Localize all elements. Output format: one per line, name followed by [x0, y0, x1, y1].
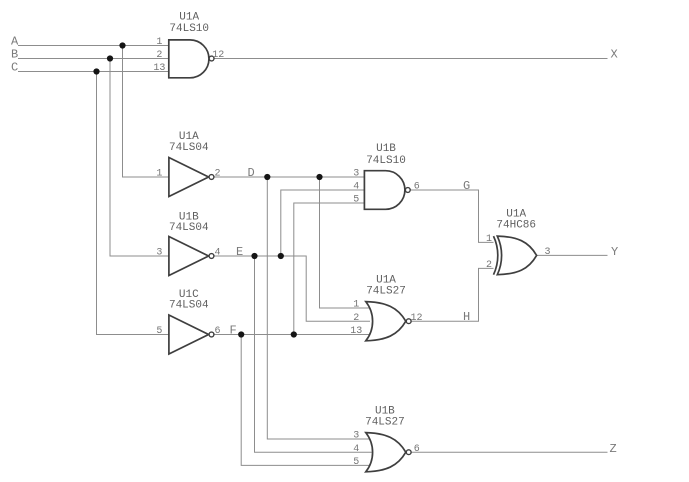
- inverter U1C 74LS04 body: [169, 315, 209, 354]
- junction on F at NAND U1B branch: [291, 331, 297, 337]
- inverter U1C 74LS04 bubble: [209, 332, 214, 337]
- wire input A horizontal: [18, 45, 169, 47]
- svg-text:4: 4: [215, 248, 221, 259]
- svg-text:12: 12: [212, 50, 224, 61]
- NOR U1B 74LS27 output bubble: [406, 450, 411, 455]
- svg-text:5: 5: [156, 326, 162, 337]
- wire F branch up to NAND U1B pin 5: [294, 203, 365, 335]
- svg-text:74LS04: 74LS04: [169, 222, 209, 234]
- wire C drop to inverter U1C input: [97, 72, 169, 335]
- wire node E to NOR U1A pin 2: [214, 256, 370, 321]
- NAND gate U1B 74LS10 body: [364, 171, 405, 210]
- svg-text:12: 12: [411, 313, 423, 324]
- svg-text:Z: Z: [610, 442, 617, 456]
- svg-text:5: 5: [353, 457, 359, 468]
- inverter U1B 74LS04 bubble: [209, 254, 214, 259]
- wire D branch down to NOR U1B pin 3: [267, 177, 370, 439]
- svg-text:74LS27: 74LS27: [365, 416, 405, 428]
- XOR U1A 74HC86 input double arc: [494, 236, 498, 275]
- XOR gate U1A 74HC86 body: [497, 236, 536, 275]
- svg-text:2: 2: [486, 260, 492, 271]
- svg-text:1: 1: [353, 300, 359, 311]
- svg-text:1: 1: [486, 234, 492, 245]
- svg-text:4: 4: [353, 444, 359, 455]
- svg-text:G: G: [463, 179, 470, 193]
- NAND U1A 74LS10 output bubble: [209, 56, 214, 61]
- wire A drop to inverter U1A input: [123, 46, 169, 178]
- wire node F to NOR U1A pin 13: [214, 334, 370, 336]
- NOR U1A 74LS27 output bubble: [406, 319, 411, 324]
- wire node G to XOR pin 1: [410, 190, 496, 242]
- wire Y output: [536, 254, 607, 256]
- inverter U1A 74LS04 body: [169, 158, 209, 197]
- svg-text:2: 2: [156, 50, 162, 61]
- svg-text:2: 2: [353, 313, 359, 324]
- svg-text:B: B: [11, 47, 18, 61]
- svg-text:X: X: [611, 47, 618, 61]
- svg-text:13: 13: [350, 326, 362, 337]
- svg-text:Y: Y: [611, 245, 618, 259]
- svg-text:74LS04: 74LS04: [169, 300, 209, 312]
- svg-text:6: 6: [215, 326, 221, 337]
- wire Z output: [411, 451, 608, 453]
- svg-text:6: 6: [414, 182, 420, 193]
- junction on E at NOR U1B branch: [251, 253, 257, 259]
- svg-text:1: 1: [156, 169, 162, 180]
- junction on D at NOR U1B branch: [264, 174, 270, 180]
- svg-text:74LS10: 74LS10: [366, 155, 406, 167]
- junction on F at NOR U1B branch: [238, 331, 244, 337]
- svg-text:3: 3: [353, 169, 359, 180]
- svg-text:3: 3: [353, 431, 359, 442]
- junction on B: [107, 55, 113, 61]
- svg-text:E: E: [236, 245, 243, 259]
- wire node H to XOR pin 2: [411, 268, 496, 321]
- NAND U1B 74LS10 output bubble: [405, 188, 410, 193]
- wire input B horizontal: [18, 58, 169, 60]
- wire input C horizontal: [18, 71, 169, 73]
- svg-text:U1A: U1A: [179, 12, 199, 24]
- svg-text:2: 2: [215, 169, 221, 180]
- junction on C: [93, 68, 99, 74]
- NOR gate U1B 74LS27 body: [366, 433, 406, 472]
- svg-text:6: 6: [414, 444, 420, 455]
- svg-text:U1B: U1B: [376, 143, 396, 155]
- svg-text:H: H: [463, 310, 470, 324]
- svg-text:A: A: [11, 34, 19, 48]
- wire B drop to inverter U1B input: [110, 59, 169, 257]
- svg-text:C: C: [11, 60, 18, 74]
- junction on D at NOR U1A branch: [316, 174, 322, 180]
- svg-text:74LS27: 74LS27: [366, 286, 406, 298]
- wire E branch up to NAND U1B pin 4: [281, 190, 365, 256]
- svg-text:4: 4: [353, 182, 359, 193]
- junction on A: [119, 42, 125, 48]
- NOR gate U1A 74LS27 body: [366, 302, 406, 341]
- svg-text:5: 5: [353, 195, 359, 206]
- inverter U1A 74LS04 bubble: [209, 175, 214, 180]
- wire D branch down to NOR U1A pin 1: [320, 177, 371, 308]
- wire E branch down to NOR U1B pin 4: [255, 256, 373, 452]
- wire F branch down to NOR U1B pin 5: [241, 335, 370, 466]
- junction on E at NAND U1B branch: [278, 253, 284, 259]
- wire X output: [214, 58, 607, 60]
- svg-text:F: F: [230, 323, 237, 337]
- svg-text:3: 3: [545, 247, 551, 258]
- svg-text:74LS04: 74LS04: [169, 142, 209, 154]
- svg-text:D: D: [248, 166, 255, 180]
- NAND gate U1A 74LS10 body: [169, 40, 209, 78]
- svg-text:13: 13: [153, 63, 165, 74]
- svg-text:3: 3: [156, 248, 162, 259]
- wire node D to NAND U1B pin 3: [214, 176, 364, 178]
- svg-text:U1A: U1A: [376, 274, 396, 286]
- svg-text:1: 1: [156, 37, 162, 48]
- inverter U1B 74LS04 body: [169, 237, 209, 276]
- svg-text:74LS10: 74LS10: [169, 23, 209, 35]
- svg-text:74HC86: 74HC86: [496, 219, 536, 231]
